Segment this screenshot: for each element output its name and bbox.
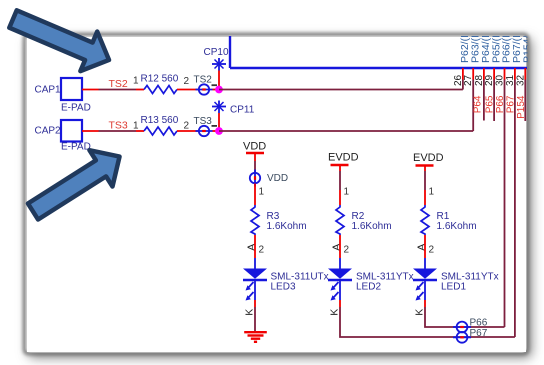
svg-text:LED2: LED2 — [356, 282, 381, 293]
port symbol TS2- (circle) — [194, 74, 218, 94]
svg-text:P154: P154 — [516, 95, 527, 119]
ground GND (LED3 cathode) — [244, 332, 267, 342]
resistor R12 560 — [133, 73, 199, 93]
wire TS3 to pin 27 — [219, 130, 473, 132]
svg-text:2: 2 — [184, 76, 190, 87]
LED LED3 (SML-311UTx) — [243, 269, 329, 301]
pin 31 / P67 — [505, 27, 523, 337]
pin 26 / P62 — [453, 27, 471, 89]
wire LED1 to P66 pin — [425, 307, 505, 327]
port symbol P66 (circle) — [453, 317, 488, 332]
resistor R13 560 — [133, 115, 199, 135]
svg-text:K: K — [329, 309, 341, 316]
pin 28 / P64 — [473, 27, 493, 120]
svg-text:CAP2: CAP2 — [35, 126, 62, 137]
svg-text:2: 2 — [259, 245, 265, 256]
pin 32 / P154 — [515, 32, 533, 121]
svg-text:TS3: TS3 — [109, 120, 128, 132]
svg-text:31: 31 — [505, 74, 516, 86]
svg-text:K: K — [414, 309, 426, 316]
svg-text:CP11: CP11 — [230, 105, 255, 116]
svg-text:1.6Kohm: 1.6Kohm — [267, 221, 307, 232]
svg-text:P66: P66 — [495, 95, 506, 113]
svg-text:R12 560: R12 560 — [141, 73, 179, 84]
LED LED1 (SML-311YTx) — [413, 269, 499, 301]
wire LED2 cathode — [339, 280, 341, 300]
svg-text:LED1: LED1 — [441, 282, 466, 293]
wire VDD to R3 — [254, 184, 256, 206]
wire TS2 to pin 26 — [219, 89, 463, 91]
wire R1 to LED1 — [424, 235, 426, 258]
svg-text:1: 1 — [133, 76, 139, 87]
power rail VDD (left) — [243, 141, 266, 162]
svg-text:LED3: LED3 — [271, 282, 296, 293]
wire TS2 (CAP1 to R12) — [99, 89, 137, 91]
capacitor CAP2 — [35, 120, 91, 153]
capacitor CP10 (star symbol) — [204, 47, 229, 71]
annotation arrow 1 (top-left, pointing down-right) — [5, 0, 118, 80]
svg-text:TS3: TS3 — [194, 116, 213, 127]
svg-text:2: 2 — [344, 245, 350, 256]
svg-text:K: K — [244, 309, 256, 316]
wire circle TS3 to junction — [213, 130, 220, 132]
capacitor CP11 (star symbol) — [212, 101, 255, 116]
svg-text:1: 1 — [429, 187, 435, 198]
svg-text:VDD: VDD — [267, 173, 288, 184]
pin lead CAP2 — [82, 130, 99, 132]
svg-text:R13 560: R13 560 — [141, 115, 179, 126]
pin 30 / P66 — [495, 27, 513, 327]
IC body outline (microcontroller, clipped at top) — [230, 33, 527, 68]
svg-text:P65: P65 — [485, 95, 496, 113]
svg-text:P67: P67 — [470, 328, 488, 339]
svg-text:2: 2 — [184, 121, 190, 132]
svg-text:P154/(: P154/( — [522, 32, 534, 63]
svg-text:TS2: TS2 — [109, 78, 128, 90]
svg-text:27: 27 — [463, 74, 474, 86]
svg-text:E-PAD: E-PAD — [61, 142, 91, 153]
wire LED1 cathode — [424, 280, 426, 300]
pin 27 / P63 — [463, 27, 481, 131]
wire EVDD rail middle — [339, 171, 341, 190]
resistor R2 1.6Kohm — [336, 205, 392, 235]
pin lead CAP1 — [82, 89, 99, 91]
wire VDD rail — [254, 161, 256, 173]
junction TS3 node — [215, 127, 223, 135]
wire LED2 to P67 pin — [340, 307, 515, 337]
svg-text:EVDD: EVDD — [413, 152, 444, 164]
svg-text:29: 29 — [484, 74, 495, 86]
resistor R1 1.6Kohm — [421, 205, 477, 235]
svg-text:CP10: CP10 — [204, 47, 229, 58]
svg-text:P66: P66 — [470, 317, 488, 328]
resistor R3 1.6Kohm — [251, 205, 307, 235]
capacitor CAP1 — [35, 78, 91, 114]
pin 29 / P65 — [484, 27, 502, 121]
LED LED2 (SML-311YTx) — [328, 269, 414, 301]
wire EVDD rail right — [424, 171, 426, 190]
wire R3 to LED3 — [254, 235, 256, 258]
svg-text:1: 1 — [344, 187, 350, 198]
svg-text:TS2: TS2 — [194, 74, 213, 85]
svg-text:1: 1 — [259, 187, 265, 198]
port symbol TS3- (circle) — [194, 116, 218, 136]
power port VDD (circle) — [250, 170, 288, 187]
power rail EVDD (right) — [413, 152, 444, 171]
junction TS2 node — [215, 86, 223, 94]
port symbol P67 (circle) — [453, 328, 488, 343]
wire CP10 stem — [218, 71, 220, 90]
power rail EVDD (middle) — [328, 152, 359, 172]
svg-text:1.6Kohm: 1.6Kohm — [437, 221, 477, 232]
svg-text:VDD: VDD — [243, 141, 266, 153]
annotation arrow 2 (mid-left, pointing up-right) — [21, 138, 131, 229]
svg-text:2: 2 — [429, 245, 435, 256]
svg-text:E-PAD: E-PAD — [61, 103, 91, 114]
svg-text:P64: P64 — [473, 95, 484, 113]
wire CP11 stem — [218, 113, 220, 131]
svg-text:EVDD: EVDD — [328, 152, 359, 164]
wire TS3 (CAP2 to R13) — [99, 130, 137, 132]
svg-text:1.6Kohm: 1.6Kohm — [352, 221, 392, 232]
svg-text:30: 30 — [495, 74, 506, 86]
svg-text:CAP1: CAP1 — [35, 85, 62, 96]
svg-text:P67: P67 — [506, 95, 517, 113]
wire circle TS2 to junction — [213, 89, 220, 91]
wire R2 to LED2 — [339, 235, 341, 258]
svg-text:32: 32 — [515, 74, 526, 86]
svg-text:1: 1 — [133, 121, 139, 132]
wire LED3 cathode — [254, 280, 256, 300]
